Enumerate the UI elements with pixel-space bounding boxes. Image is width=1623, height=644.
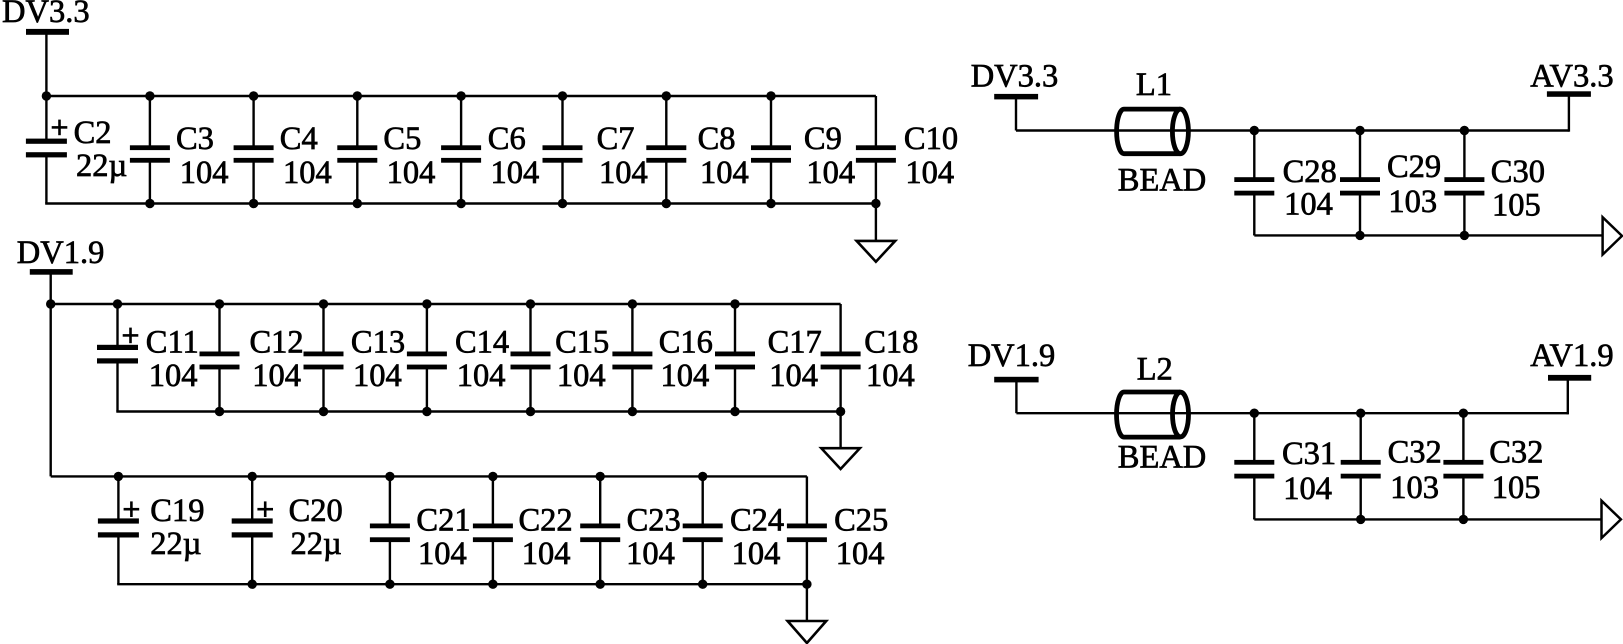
- svg-text:C5: C5: [383, 121, 421, 157]
- junction dots bottom bus bottom-right: [1356, 515, 1468, 524]
- value 104 of C13: [353, 358, 402, 394]
- value 104 of C10: [905, 155, 954, 191]
- label C11: [146, 325, 199, 361]
- polarized capacitor C20 (22µ): [232, 476, 273, 584]
- capacitor C25 (104): [787, 476, 827, 584]
- value BEAD of L1: [1118, 162, 1206, 198]
- label C28: [1283, 154, 1337, 190]
- ground row1: [857, 241, 896, 262]
- label C17: [768, 325, 822, 361]
- svg-text:103: 103: [1390, 470, 1439, 506]
- svg-text:C20: C20: [289, 493, 343, 529]
- value 104 of C12: [252, 358, 301, 394]
- power bar DV1.9 (left): [30, 269, 73, 275]
- label C9: [804, 121, 842, 157]
- svg-text:104: 104: [836, 536, 885, 572]
- junction dots top bus row2: [113, 299, 740, 308]
- capacitor C32 (103): [1341, 413, 1381, 519]
- value 103 of C29: [1388, 184, 1437, 220]
- power flag AV1.9: [1530, 338, 1613, 374]
- svg-text:104: 104: [557, 358, 606, 394]
- svg-text:C8: C8: [698, 121, 736, 157]
- svg-text:C15: C15: [555, 325, 609, 361]
- svg-text:104: 104: [732, 536, 781, 572]
- label C4: [280, 121, 318, 157]
- ground row2: [821, 448, 860, 469]
- label C30: [1491, 154, 1545, 190]
- capacitor C21 (104): [370, 476, 410, 584]
- capacitor C29 (103): [1340, 131, 1380, 236]
- wire main line L2 row: [1016, 412, 1567, 414]
- junction dots top bus row1: [42, 91, 776, 100]
- junction dots top bus row3: [114, 472, 708, 481]
- inductor L2 ferrite bead: [1117, 392, 1189, 437]
- wire AV1.9 down to main line: [1567, 380, 1569, 414]
- svg-text:104: 104: [599, 155, 648, 191]
- label C6: [488, 121, 526, 157]
- wire to ground row1: [875, 204, 877, 242]
- label C19: [150, 493, 204, 529]
- wire top bus row2: [51, 303, 841, 305]
- plus sign of C20: [257, 501, 273, 517]
- label L2: [1137, 352, 1173, 388]
- value 104 of C18: [866, 358, 915, 394]
- svg-text:C32: C32: [1388, 435, 1442, 471]
- svg-text:C32: C32: [1489, 435, 1543, 471]
- svg-text:104: 104: [626, 536, 675, 572]
- wire AV3.3 down to main line: [1568, 96, 1570, 131]
- svg-text:104: 104: [149, 358, 198, 394]
- value 104 of C15: [557, 358, 606, 394]
- label C23: [627, 503, 681, 539]
- value 103 of C32: [1390, 470, 1439, 506]
- value 22µ of C2: [76, 148, 127, 184]
- svg-text:C9: C9: [804, 121, 842, 157]
- svg-text:BEAD: BEAD: [1118, 440, 1206, 476]
- svg-text:C14: C14: [455, 325, 509, 361]
- capacitor C16 (104): [612, 304, 652, 412]
- capacitor C24 (104): [683, 476, 723, 584]
- capacitor C13 (104): [304, 304, 344, 412]
- junction dots main line row (top right): [1250, 126, 1470, 135]
- label C16: [659, 325, 713, 361]
- junction dots bottom bus row3: [248, 580, 812, 589]
- power flag DV3.3 (top-left): [2, 0, 90, 30]
- svg-text:DV1.9: DV1.9: [968, 338, 1056, 374]
- wire bottom bus bottom-right: [1254, 518, 1603, 519]
- value 22µ of C19: [150, 526, 201, 562]
- label C2: [74, 115, 112, 151]
- value 104 of C21: [418, 536, 467, 572]
- svg-text:22µ: 22µ: [76, 148, 127, 184]
- capacitor C12 (104): [200, 304, 240, 412]
- svg-text:105: 105: [1492, 188, 1541, 224]
- capacitor C23 (104): [580, 476, 620, 584]
- power flag DV3.3 (right): [971, 59, 1059, 95]
- power bar DV1.9 (right): [994, 377, 1038, 383]
- label C3: [176, 121, 214, 157]
- inductor L1 ferrite bead: [1117, 109, 1189, 154]
- label C14: [455, 325, 509, 361]
- label L1: [1136, 67, 1172, 103]
- power bar DV3.3 (right): [994, 94, 1038, 100]
- value 104 of C24: [732, 536, 781, 572]
- svg-text:C19: C19: [150, 493, 204, 529]
- capacitor C17 (104): [715, 304, 755, 412]
- output arrow AV3.3 net: [1603, 217, 1622, 254]
- wire DV3.3 to top bus: [45, 34, 47, 96]
- svg-text:104: 104: [180, 155, 229, 191]
- capacitor C6 (104): [441, 96, 481, 204]
- svg-text:C18: C18: [864, 325, 918, 361]
- wire to ground row3: [806, 584, 808, 621]
- svg-text:104: 104: [387, 155, 436, 191]
- label C21: [416, 503, 470, 539]
- value 104 of C31: [1283, 471, 1332, 507]
- svg-text:C11: C11: [146, 325, 199, 361]
- value BEAD of L2: [1118, 440, 1206, 476]
- svg-text:104: 104: [353, 358, 402, 394]
- svg-text:BEAD: BEAD: [1118, 162, 1206, 198]
- capacitor C28 (104): [1234, 131, 1274, 236]
- capacitor C22 (104): [473, 476, 513, 584]
- junction dots bottom bus row2: [215, 407, 846, 416]
- capacitor C8 (104): [646, 96, 686, 204]
- label C32: [1388, 435, 1442, 471]
- svg-text:104: 104: [905, 155, 954, 191]
- label C8: [698, 121, 736, 157]
- svg-text:C30: C30: [1491, 154, 1545, 190]
- label C29: [1387, 149, 1441, 185]
- svg-text:C3: C3: [176, 121, 214, 157]
- svg-text:104: 104: [1284, 186, 1333, 222]
- svg-text:C10: C10: [904, 121, 958, 157]
- svg-text:C21: C21: [416, 503, 470, 539]
- wire bottom bus row1: [45, 202, 877, 204]
- wire DV3.3 right down: [1015, 99, 1017, 131]
- label C13: [351, 325, 405, 361]
- junction dots bottom bus row1: [145, 199, 880, 208]
- value 104 of C9: [806, 155, 855, 191]
- value 104 of C16: [661, 358, 710, 394]
- power bar DV3.3 (top-left): [26, 29, 69, 35]
- capacitor C5 (104): [337, 96, 377, 204]
- capacitor C32 (105): [1443, 413, 1483, 519]
- capacitor C30 (105): [1444, 131, 1484, 236]
- wire DV1.9 down to row3 bus: [50, 274, 52, 476]
- svg-text:C12: C12: [250, 325, 304, 361]
- value 104 of C4: [283, 155, 332, 191]
- junction dots bottom bus top-right: [1355, 231, 1469, 240]
- svg-text:104: 104: [283, 155, 332, 191]
- svg-text:C22: C22: [519, 503, 573, 539]
- value 104 of C25: [836, 536, 885, 572]
- svg-text:L2: L2: [1137, 352, 1173, 388]
- label C7: [597, 121, 635, 157]
- svg-text:C25: C25: [834, 503, 888, 539]
- svg-text:105: 105: [1492, 470, 1541, 506]
- svg-text:104: 104: [769, 358, 818, 394]
- plus sign of C11: [123, 328, 139, 344]
- value 104 of C14: [457, 358, 506, 394]
- junction dot DV1.9 at top bus row2: [46, 299, 55, 308]
- svg-text:22µ: 22µ: [291, 526, 342, 562]
- wire DV1.9 right down: [1015, 382, 1017, 413]
- capacitor C15 (104): [511, 304, 551, 412]
- power flag AV3.3: [1530, 59, 1613, 95]
- label C24: [730, 503, 784, 539]
- plus sign of C2: [52, 120, 68, 136]
- svg-text:104: 104: [1283, 471, 1332, 507]
- capacitor C31 (104): [1234, 413, 1274, 519]
- plus sign of C19: [124, 501, 140, 517]
- value 104 of C11: [149, 358, 198, 394]
- label C18: [864, 325, 918, 361]
- svg-text:C17: C17: [768, 325, 822, 361]
- label C32: [1489, 435, 1543, 471]
- value 104 of C8: [700, 155, 749, 191]
- svg-text:C4: C4: [280, 121, 318, 157]
- junction dots main line row (bottom right): [1250, 409, 1469, 418]
- svg-text:L1: L1: [1136, 67, 1172, 103]
- svg-text:DV3.3: DV3.3: [2, 0, 90, 30]
- value 104 of C6: [491, 155, 540, 191]
- value 104 of C22: [522, 536, 571, 572]
- polarized capacitor C11 (104): [97, 304, 138, 412]
- ground row3: [788, 621, 827, 643]
- svg-text:104: 104: [252, 358, 301, 394]
- power flag DV1.9 (left): [17, 235, 105, 271]
- svg-text:C23: C23: [627, 503, 681, 539]
- svg-text:104: 104: [806, 155, 855, 191]
- svg-text:DV1.9: DV1.9: [17, 235, 105, 271]
- svg-text:104: 104: [661, 358, 710, 394]
- power flag DV1.9 (right): [968, 338, 1056, 374]
- value 105 of C32: [1492, 470, 1541, 506]
- value 104 of C7: [599, 155, 648, 191]
- wire main line L1 row: [1016, 129, 1569, 131]
- capacitor C7 (104): [543, 96, 583, 204]
- svg-text:C29: C29: [1387, 149, 1441, 185]
- capacitor C14 (104): [407, 304, 447, 412]
- label C15: [555, 325, 609, 361]
- value 104 of C23: [626, 536, 675, 572]
- svg-text:C2: C2: [74, 115, 112, 151]
- label C12: [250, 325, 304, 361]
- value 104 of C5: [387, 155, 436, 191]
- wire to ground row2: [839, 412, 841, 449]
- svg-text:104: 104: [457, 358, 506, 394]
- wire bottom bus top-right: [1254, 234, 1604, 235]
- svg-text:C6: C6: [488, 121, 526, 157]
- label C10: [904, 121, 958, 157]
- polarized capacitor C19 (22µ): [98, 476, 139, 584]
- value 105 of C30: [1492, 188, 1541, 224]
- label C31: [1282, 436, 1336, 472]
- output arrow AV1.9 net: [1602, 501, 1621, 538]
- svg-text:C7: C7: [597, 121, 635, 157]
- svg-text:104: 104: [418, 536, 467, 572]
- svg-text:104: 104: [522, 536, 571, 572]
- value 104 of C28: [1284, 186, 1333, 222]
- svg-text:104: 104: [866, 358, 915, 394]
- polarized capacitor C2 (22µ): [26, 96, 67, 204]
- capacitor C18 (104): [821, 304, 861, 412]
- label C5: [383, 121, 421, 157]
- svg-text:C31: C31: [1282, 436, 1336, 472]
- svg-text:C24: C24: [730, 503, 784, 539]
- wire bottom bus row2: [116, 410, 842, 412]
- svg-text:AV3.3: AV3.3: [1530, 59, 1613, 95]
- value 104 of C17: [769, 358, 818, 394]
- wire top bus row3: [51, 475, 807, 477]
- svg-text:C28: C28: [1283, 154, 1337, 190]
- power bar AV1.9: [1548, 375, 1591, 381]
- power bar AV3.3: [1547, 91, 1591, 97]
- value 104 of C3: [180, 155, 229, 191]
- capacitor C4 (104): [234, 96, 274, 204]
- capacitor C9 (104): [751, 96, 791, 204]
- label C22: [519, 503, 573, 539]
- wire bottom bus row3: [117, 583, 808, 585]
- label C20: [289, 493, 343, 529]
- capacitor C10 (104): [856, 96, 896, 204]
- svg-text:DV3.3: DV3.3: [971, 59, 1059, 95]
- wire top bus row1 (DV3.3 rail): [45, 95, 876, 97]
- value 22µ of C20: [291, 526, 342, 562]
- svg-text:C16: C16: [659, 325, 713, 361]
- label C25: [834, 503, 888, 539]
- svg-text:104: 104: [700, 155, 749, 191]
- svg-text:C13: C13: [351, 325, 405, 361]
- svg-text:103: 103: [1388, 184, 1437, 220]
- svg-text:22µ: 22µ: [150, 526, 201, 562]
- capacitor C3 (104): [130, 96, 170, 204]
- svg-text:104: 104: [491, 155, 540, 191]
- svg-text:AV1.9: AV1.9: [1530, 338, 1613, 374]
